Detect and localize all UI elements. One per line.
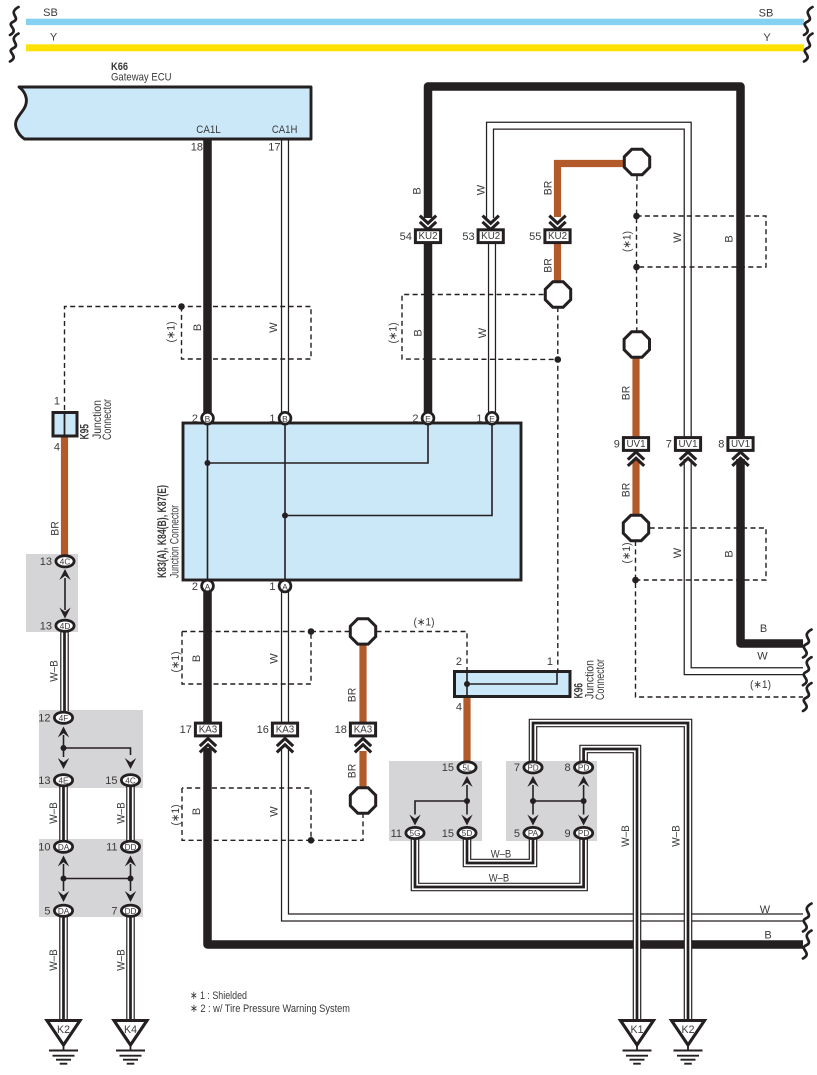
wire B branch via 54 KU2 / top run / 8 UV1 to right edge bbox=[428, 87, 803, 644]
ground K2 left bbox=[47, 1021, 80, 1064]
node shield junction mid bbox=[555, 356, 562, 363]
label SB left bbox=[43, 7, 58, 19]
bus bar SB break left bbox=[10, 7, 19, 35]
svg-text:4F: 4F bbox=[59, 714, 69, 723]
label BR below 55 KU2 bbox=[543, 258, 555, 273]
svg-text:15: 15 bbox=[442, 762, 454, 774]
svg-text:∗ 1 : Shielded: ∗ 1 : Shielded bbox=[190, 990, 247, 1002]
svg-text:5G: 5G bbox=[410, 829, 421, 838]
label W-B right 1 bbox=[620, 825, 632, 847]
node shield rect right bbox=[632, 577, 639, 584]
connector 16 KA3 with arrows bbox=[257, 723, 298, 752]
label W-B left 4 bbox=[48, 949, 60, 971]
label (*1) near K96 bbox=[414, 617, 435, 629]
break wire W right middle bbox=[803, 657, 812, 685]
bus bar Y bbox=[26, 44, 804, 51]
svg-text:15: 15 bbox=[442, 828, 454, 840]
shield octagon mid column bbox=[545, 282, 570, 307]
pin 2 A bbox=[192, 580, 214, 593]
bus bar SB bbox=[26, 19, 804, 25]
break wire W bottom right bbox=[803, 904, 812, 932]
connector 54 KU2 with arrows bbox=[400, 216, 441, 243]
svg-text:Gateway ECU: Gateway ECU bbox=[111, 72, 172, 84]
connector 8 UV1 with arrows bbox=[718, 438, 753, 466]
svg-text:PD: PD bbox=[578, 764, 589, 773]
svg-text:1: 1 bbox=[54, 396, 60, 408]
connector 55 KU2 with arrows bbox=[529, 216, 570, 243]
label BR below 18 KA3 bbox=[347, 764, 359, 779]
shield rect around B/W above KA3 bbox=[182, 632, 311, 685]
svg-text:B: B bbox=[205, 414, 211, 424]
shield octagon top right bbox=[624, 149, 649, 174]
label B right middle bbox=[760, 623, 767, 635]
wire W-B splice DA to ground K2 bbox=[59, 911, 68, 1021]
svg-text:13: 13 bbox=[40, 556, 52, 568]
wire W branch via 53 KU2 / top run / 7 UV1 to right edge bbox=[490, 126, 803, 672]
label W-B right 2 bbox=[671, 825, 683, 847]
svg-text:1: 1 bbox=[547, 656, 553, 668]
junction connector internal wire 2B-2A bbox=[207, 423, 209, 580]
svg-text:2: 2 bbox=[456, 656, 462, 668]
harness splice group box (4F/4E/4C) bbox=[39, 710, 143, 788]
svg-text:13: 13 bbox=[40, 621, 52, 633]
svg-text:B: B bbox=[191, 655, 203, 662]
ground K1 right bbox=[621, 1021, 654, 1064]
shield line octagon to rect lower bbox=[311, 813, 363, 840]
svg-text:18: 18 bbox=[335, 724, 347, 736]
svg-text:W: W bbox=[476, 184, 488, 195]
svg-text:18: 18 bbox=[191, 142, 203, 154]
svg-text:BR: BR bbox=[347, 764, 359, 779]
label (*1) bottom right bbox=[750, 679, 771, 691]
svg-text:W: W bbox=[672, 547, 684, 558]
break shield right middle bbox=[803, 683, 812, 711]
svg-text:DD: DD bbox=[125, 843, 137, 852]
svg-text:(∗1): (∗1) bbox=[166, 322, 178, 343]
label BR below 9 UV1 bbox=[621, 483, 633, 498]
svg-text:7: 7 bbox=[666, 439, 672, 451]
wire W-B splice 5D to PA bbox=[467, 833, 533, 863]
svg-text:5: 5 bbox=[44, 906, 50, 918]
wire BR 9 UV1 to lower shield octagon bbox=[632, 459, 639, 516]
node shield T-junction KA3 upper bbox=[308, 628, 315, 635]
wire BR from 55 KU2 down to shield octagon bbox=[554, 240, 561, 284]
svg-text:B: B bbox=[760, 623, 767, 635]
junction connector K83(A), K84(B), K87(E) bbox=[156, 423, 521, 580]
svg-text:UV1: UV1 bbox=[731, 439, 750, 450]
svg-text:A: A bbox=[282, 582, 288, 592]
pin 2 B bbox=[192, 412, 214, 425]
shield rect around W/B top right bbox=[637, 216, 767, 267]
label Y left bbox=[50, 32, 58, 44]
node shield T-junction bbox=[178, 303, 185, 310]
svg-text:4E: 4E bbox=[58, 776, 69, 785]
pin 2 E bbox=[412, 412, 434, 425]
wire W-B 7 PD to ground K2 right bbox=[533, 723, 688, 1021]
harness splice group box (DA/DD) bbox=[39, 839, 143, 917]
shield octagon below 18 KA3 bbox=[350, 788, 375, 813]
splice arrows 5L-5G-5D bbox=[409, 776, 472, 826]
svg-text:DA: DA bbox=[58, 907, 70, 916]
svg-text:4: 4 bbox=[456, 702, 462, 714]
shield line lower octagon to bottom right edge bbox=[636, 541, 804, 697]
junction connector internal wire 2E to node bbox=[208, 423, 429, 463]
shield octagon above 18 KA3 bbox=[350, 619, 375, 644]
svg-text:B: B bbox=[192, 324, 204, 331]
svg-text:B: B bbox=[191, 808, 203, 815]
connector 9 UV1 with arrows bbox=[614, 438, 649, 466]
pin 1 A bbox=[269, 580, 291, 593]
label W-B left 5 bbox=[116, 949, 128, 971]
label W-B horizontal 2 bbox=[489, 873, 510, 885]
svg-text:1: 1 bbox=[476, 413, 482, 425]
svg-text:UV1: UV1 bbox=[678, 439, 697, 450]
label W-B left 2 bbox=[48, 802, 60, 824]
svg-text:4C: 4C bbox=[125, 776, 136, 785]
junction connector internal wire 1B-1A bbox=[284, 423, 286, 580]
svg-text:12: 12 bbox=[38, 713, 50, 725]
splice arrows 4C-4D bbox=[59, 569, 70, 619]
svg-text:B: B bbox=[413, 329, 425, 336]
label W-B horizontal 1 bbox=[491, 849, 512, 861]
svg-text:4D: 4D bbox=[60, 622, 71, 631]
svg-text:W: W bbox=[477, 327, 489, 338]
node internal 2E/2B bbox=[205, 460, 211, 466]
svg-text:5: 5 bbox=[514, 828, 520, 840]
svg-text:W–B: W–B bbox=[48, 949, 60, 971]
shield rect around B/W below K66 bbox=[182, 307, 312, 360]
pin 1 B bbox=[269, 412, 291, 425]
svg-text:11: 11 bbox=[391, 828, 402, 840]
labels rect below KU2 bbox=[388, 323, 490, 344]
svg-text:W–B: W–B bbox=[49, 660, 61, 682]
break wire B bottom right bbox=[803, 931, 812, 959]
connector 18 KA3 with arrows bbox=[335, 723, 376, 752]
shield line octagon to K96 pin 1 bbox=[557, 307, 559, 670]
labels rect right lower bbox=[621, 543, 736, 564]
svg-text:BR: BR bbox=[347, 688, 359, 703]
harness splice group box (PD/PA/PD) bbox=[506, 761, 597, 841]
node shield rect bottom bbox=[633, 264, 640, 271]
svg-text:4: 4 bbox=[54, 442, 60, 454]
bus bar SB break right bbox=[804, 7, 813, 35]
svg-text:W: W bbox=[672, 232, 684, 243]
svg-text:15: 15 bbox=[105, 775, 117, 787]
ground K4 left bbox=[114, 1021, 147, 1064]
svg-text:(∗1): (∗1) bbox=[750, 679, 771, 691]
svg-text:W–B: W–B bbox=[491, 849, 512, 861]
splice 15 5D bbox=[442, 827, 476, 839]
svg-text:DA: DA bbox=[58, 843, 70, 852]
svg-text:K83(A), K84(B), K87(E): K83(A), K84(B), K87(E) bbox=[156, 485, 169, 578]
svg-text:B: B bbox=[764, 930, 771, 942]
svg-text:10: 10 bbox=[38, 842, 50, 854]
svg-text:(∗1): (∗1) bbox=[388, 323, 400, 344]
svg-text:2: 2 bbox=[192, 413, 198, 425]
svg-text:(∗1): (∗1) bbox=[621, 543, 633, 564]
svg-text:PD: PD bbox=[578, 829, 589, 838]
shield line from K95 to rect bbox=[65, 307, 312, 411]
shield octagon lower right bbox=[623, 515, 648, 540]
svg-text:W–B: W–B bbox=[116, 949, 128, 971]
svg-text:8: 8 bbox=[718, 439, 724, 451]
wire BR K96 pin 4 to splice 5L bbox=[463, 697, 470, 767]
svg-text:W–B: W–B bbox=[116, 802, 128, 824]
shield rect around W/B right bbox=[636, 528, 767, 580]
wire BR octagon to 18 KA3 bbox=[359, 644, 366, 726]
node internal 1E/1B bbox=[282, 513, 288, 519]
svg-text:KU2: KU2 bbox=[548, 231, 567, 242]
svg-text:SB: SB bbox=[43, 7, 58, 19]
svg-text:16: 16 bbox=[257, 724, 269, 736]
svg-text:7: 7 bbox=[514, 762, 520, 774]
splice 12 4F bbox=[38, 712, 72, 724]
svg-text:Connector: Connector bbox=[101, 399, 114, 440]
splice 13 4D bbox=[40, 620, 74, 632]
svg-text:W: W bbox=[757, 651, 768, 663]
label Y right bbox=[763, 32, 771, 44]
svg-text:Junction Connector: Junction Connector bbox=[168, 505, 181, 578]
label W bottom right bbox=[760, 904, 771, 916]
svg-text:BR: BR bbox=[50, 521, 62, 536]
junction connector K96 bbox=[455, 656, 608, 714]
label BR above 18 KA3 bbox=[347, 688, 359, 703]
legend note 2 bbox=[190, 1003, 350, 1015]
svg-text:K1: K1 bbox=[631, 1024, 644, 1036]
svg-text:W–B: W–B bbox=[620, 825, 632, 847]
svg-text:BR: BR bbox=[543, 181, 555, 196]
labels rect below K66 bbox=[166, 322, 281, 343]
wire W-B splice 5G to 9 PD bbox=[415, 833, 584, 887]
svg-text:Y: Y bbox=[763, 32, 771, 44]
svg-text:11: 11 bbox=[106, 842, 117, 854]
svg-text:1: 1 bbox=[269, 581, 275, 593]
labels rect top right bbox=[622, 231, 736, 252]
svg-text:KU2: KU2 bbox=[418, 231, 437, 242]
splice 15 4C bbox=[105, 775, 139, 787]
svg-text:K2: K2 bbox=[57, 1024, 70, 1036]
wire BR from 55 KU2 up to shield octagon bbox=[558, 164, 626, 218]
svg-text:BR: BR bbox=[543, 258, 555, 273]
shield rect around B/W below KA3 bbox=[182, 788, 311, 840]
svg-text:BR: BR bbox=[621, 483, 633, 498]
label W above 53 KU2 bbox=[476, 184, 488, 195]
svg-text:9: 9 bbox=[564, 828, 570, 840]
harness splice group box (4C/4D) bbox=[26, 554, 78, 632]
svg-text:2: 2 bbox=[412, 413, 418, 425]
shield octagon mid right bbox=[624, 332, 649, 357]
svg-text:2: 2 bbox=[192, 581, 198, 593]
splice arrows 4F-4E-4C bbox=[58, 727, 136, 770]
splice 15 5L bbox=[442, 762, 476, 774]
svg-text:Y: Y bbox=[50, 32, 58, 44]
label W-B left 3 bbox=[116, 802, 128, 824]
svg-text:A: A bbox=[205, 582, 211, 592]
wire B (CAN-L) from K66 pin 18 to right edge bbox=[208, 136, 804, 945]
svg-text:W: W bbox=[760, 904, 771, 916]
svg-text:(∗1): (∗1) bbox=[622, 231, 634, 252]
splice 11 5G bbox=[391, 827, 425, 839]
splice 9 PD bbox=[564, 827, 592, 839]
splice 11 DD bbox=[106, 841, 140, 853]
svg-text:CA1H: CA1H bbox=[272, 124, 298, 136]
svg-text:1: 1 bbox=[269, 413, 275, 425]
labels rect above KA3 bbox=[170, 652, 281, 673]
svg-text:W–B: W–B bbox=[48, 802, 60, 824]
svg-text:K95: K95 bbox=[79, 424, 92, 440]
splice 13 4E bbox=[38, 775, 72, 787]
svg-text:17: 17 bbox=[180, 724, 192, 736]
label B bottom right bbox=[764, 930, 771, 942]
break wire B right middle bbox=[803, 630, 812, 658]
svg-text:5D: 5D bbox=[462, 829, 473, 838]
label B above 54 KU2 bbox=[412, 187, 424, 194]
connector 7 UV1 with arrows bbox=[666, 438, 701, 466]
wire W-B splice 4D down to 4F bbox=[60, 626, 69, 711]
svg-text:13: 13 bbox=[38, 775, 50, 787]
svg-text:KA3: KA3 bbox=[276, 725, 295, 736]
label W-B left 1 bbox=[49, 660, 61, 682]
svg-text:KA3: KA3 bbox=[354, 725, 373, 736]
connector 17 KA3 with arrows bbox=[180, 723, 221, 752]
shield line octagon chain top right bbox=[636, 176, 639, 331]
junction connector internal wire 1E to node bbox=[285, 423, 492, 516]
svg-text:KU2: KU2 bbox=[481, 231, 500, 242]
svg-text:(∗1): (∗1) bbox=[170, 805, 182, 826]
svg-text:54: 54 bbox=[400, 231, 412, 243]
svg-text:4C: 4C bbox=[60, 557, 71, 566]
shield line rect top edge bbox=[182, 631, 311, 633]
wire BR 18 KA3 to octagon bbox=[359, 751, 366, 789]
splice arrows PD-PA-PD bbox=[527, 776, 589, 826]
svg-text:9: 9 bbox=[614, 439, 620, 451]
splice 8 PD bbox=[564, 762, 592, 774]
svg-text:CA1L: CA1L bbox=[196, 124, 221, 136]
svg-text:KA3: KA3 bbox=[199, 725, 218, 736]
svg-text:B: B bbox=[724, 550, 736, 557]
svg-text:5L: 5L bbox=[462, 764, 472, 773]
wire W-B splice 4E down to DA bbox=[59, 781, 68, 847]
svg-text:53: 53 bbox=[462, 231, 474, 243]
svg-text:17: 17 bbox=[268, 142, 280, 154]
splice 13 4C bbox=[40, 556, 74, 568]
svg-text:8: 8 bbox=[564, 762, 570, 774]
svg-text:W: W bbox=[268, 322, 280, 333]
legend note 1 bbox=[190, 990, 247, 1002]
svg-text:(∗1): (∗1) bbox=[414, 617, 435, 629]
svg-text:55: 55 bbox=[529, 231, 541, 243]
svg-text:UV1: UV1 bbox=[626, 439, 645, 450]
node shield rect top bbox=[633, 213, 640, 220]
wire W-B 8 PD to ground K1 right bbox=[584, 749, 637, 1021]
node shield T-junction KA3 lower bbox=[308, 837, 315, 844]
splice 7 DD bbox=[111, 905, 139, 917]
harness splice group box (5L/5G/5D) bbox=[389, 761, 482, 841]
ground K2 right bbox=[672, 1021, 705, 1064]
junction connector K95 bbox=[53, 396, 114, 454]
wire W-B splice DD to ground K4 bbox=[126, 911, 135, 1021]
svg-text:B: B bbox=[282, 414, 288, 424]
label SB right bbox=[759, 8, 774, 20]
svg-text:W: W bbox=[269, 653, 281, 664]
splice 10 DA bbox=[38, 841, 72, 853]
svg-text:K4: K4 bbox=[124, 1024, 137, 1036]
svg-text:W: W bbox=[269, 806, 281, 817]
svg-text:7: 7 bbox=[111, 906, 117, 918]
splice 7 PD bbox=[514, 762, 542, 774]
splice 5 DA bbox=[44, 905, 72, 917]
label W right middle bbox=[757, 651, 768, 663]
svg-text:(∗1): (∗1) bbox=[170, 652, 182, 673]
wire BR K95 to splice 4C bbox=[61, 437, 68, 561]
svg-text:DD: DD bbox=[125, 907, 137, 916]
svg-text:PA: PA bbox=[528, 829, 539, 838]
label BR above 55 KU2 bbox=[543, 181, 555, 196]
svg-text:B: B bbox=[724, 235, 736, 242]
label BR left K95 bbox=[50, 521, 62, 536]
bus bar Y break right bbox=[804, 34, 813, 62]
labels rect below KA3 bbox=[170, 805, 281, 826]
wire BR shield octagon to 9 UV1 bbox=[632, 357, 639, 440]
svg-text:Connector: Connector bbox=[594, 659, 607, 700]
svg-text:W–B: W–B bbox=[489, 873, 510, 885]
wire W-B splice 4C down to DD bbox=[126, 781, 135, 847]
svg-text:B: B bbox=[412, 187, 424, 194]
splice arrows DA-DD bbox=[58, 856, 136, 903]
svg-text:BR: BR bbox=[621, 386, 633, 401]
svg-text:K2: K2 bbox=[682, 1024, 695, 1036]
shield line rect to octagon to K96 pin 2 bbox=[311, 632, 467, 671]
splice 5 PA bbox=[514, 827, 542, 839]
svg-text:SB: SB bbox=[759, 8, 774, 20]
shield rect around B/W below KU2 bbox=[402, 295, 558, 360]
connector 53 KU2 with arrows bbox=[462, 216, 503, 243]
pin 1 E bbox=[476, 412, 498, 425]
svg-text:E: E bbox=[489, 414, 495, 424]
bus bar Y break left bbox=[10, 34, 19, 62]
svg-text:E: E bbox=[425, 414, 431, 424]
label BR above 9 UV1 bbox=[621, 386, 633, 401]
svg-text:∗ 2 : w/ Tire Pressure Warning: ∗ 2 : w/ Tire Pressure Warning System bbox=[190, 1003, 350, 1015]
ECU K66 Gateway ECU bbox=[16, 61, 311, 154]
svg-text:PD: PD bbox=[527, 764, 538, 773]
svg-text:W–B: W–B bbox=[671, 825, 683, 847]
wire W (CAN-H) from K66 pin 17 to right edge bbox=[285, 136, 803, 918]
